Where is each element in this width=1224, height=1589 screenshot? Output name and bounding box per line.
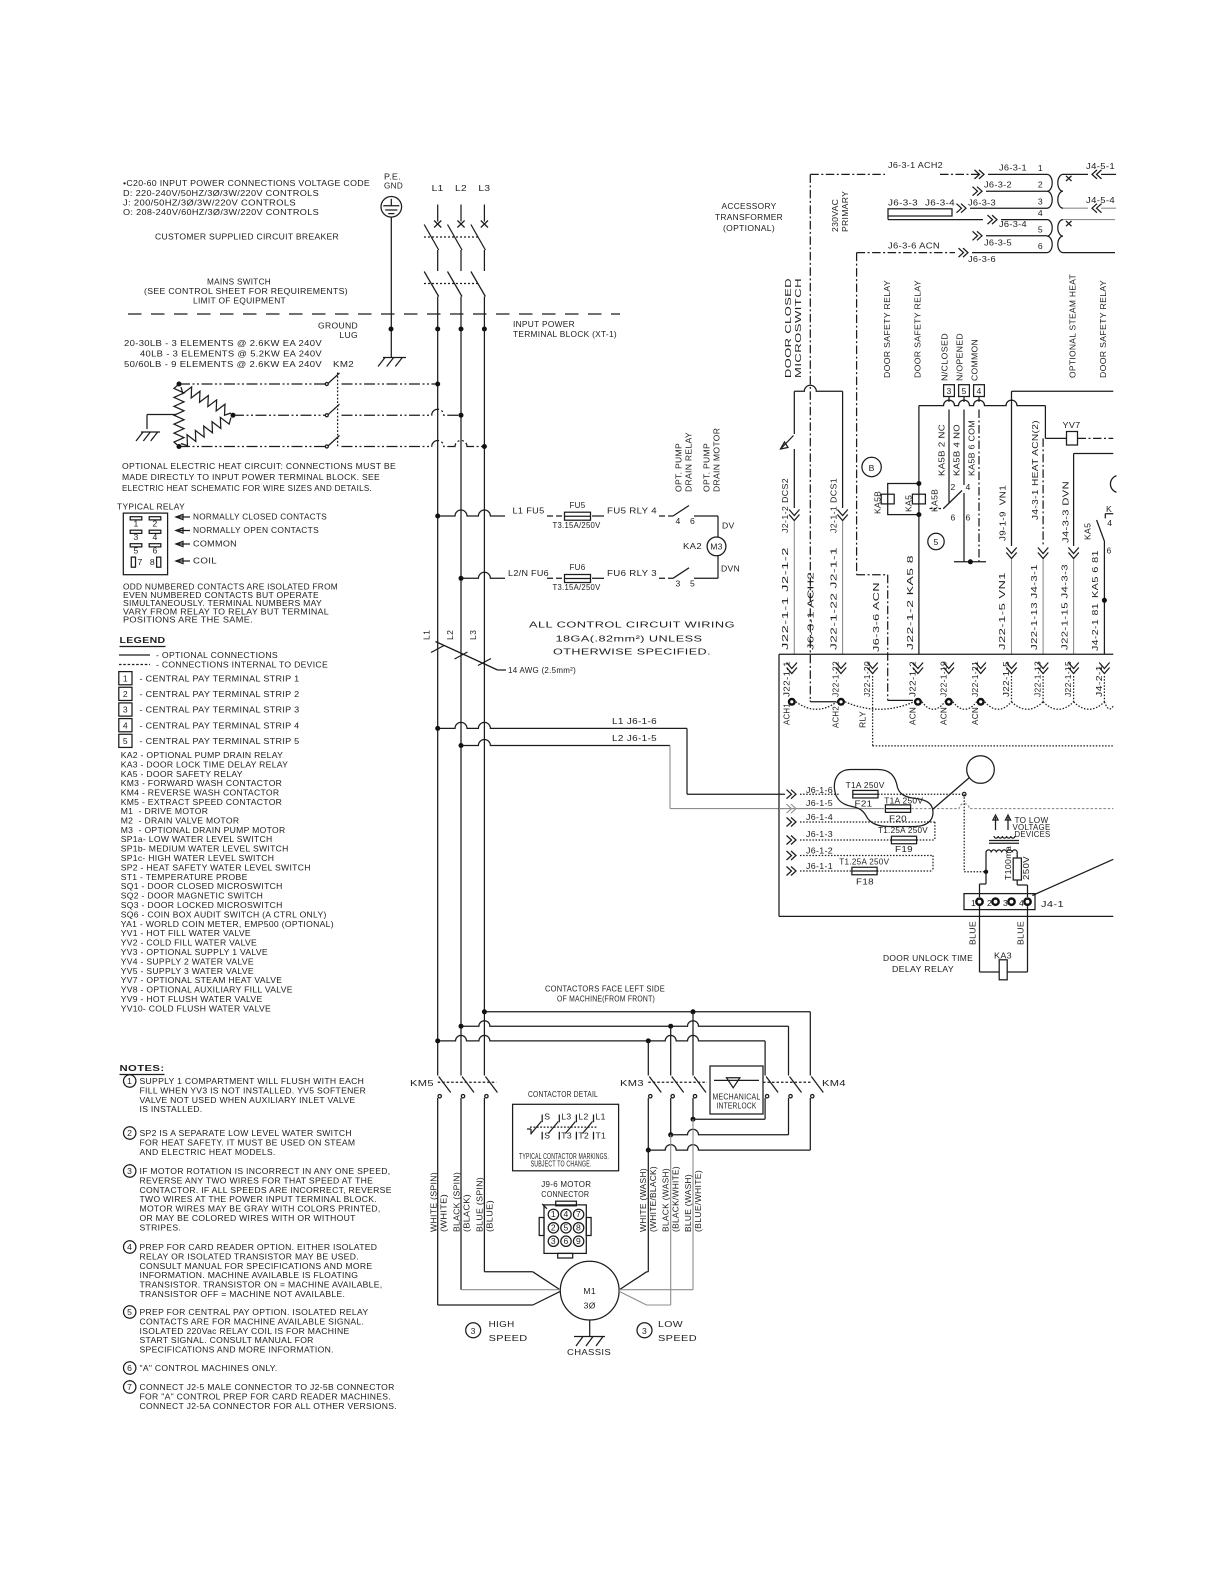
svg-text:J22-1-22 J2-1-1: J22-1-22 J2-1-1: [828, 547, 838, 650]
svg-text:J6-1-2: J6-1-2: [806, 846, 833, 856]
svg-text:3: 3: [946, 386, 951, 396]
svg-text:FU6 RLY 3: FU6 RLY 3: [607, 568, 657, 578]
wire L3 vertical: [483, 329, 485, 1076]
svg-text:BLACK (SPIN): BLACK (SPIN): [452, 1172, 462, 1232]
svg-text:ACH1: ACH1: [781, 703, 791, 725]
svg-text:L3: L3: [468, 630, 478, 640]
svg-text:S: S: [544, 1112, 550, 1122]
svg-text:INPUT POWER: INPUT POWER: [513, 319, 575, 329]
svg-text:J6-3-4: J6-3-4: [925, 198, 955, 208]
svg-text:YV10- COLD FLUSH WATER VALVE: YV10- COLD FLUSH WATER VALVE: [121, 1003, 271, 1013]
svg-text:4: 4: [1107, 518, 1112, 528]
mains switch linkage (dotted): [424, 283, 478, 285]
svg-text:- CENTRAL PAY TERMINAL STRIP 4: - CENTRAL PAY TERMINAL STRIP 4: [140, 720, 300, 730]
svg-text:L2: L2: [578, 1112, 588, 1122]
ground: chassis: [589, 1320, 591, 1337]
relay coil KA5: [912, 494, 925, 504]
svg-text:CONNECT J2-5A CONNECTOR FOR AL: CONNECT J2-5A CONNECTOR FOR ALL OTHER VE…: [140, 1401, 397, 1411]
svg-text:J6-3-1 ACH2: J6-3-1 ACH2: [806, 572, 816, 650]
connector J6-1-2 row: [791, 851, 796, 860]
svg-text:OPT. PUMP: OPT. PUMP: [702, 443, 712, 492]
svg-text:BLUE (WASH): BLUE (WASH): [683, 1174, 693, 1232]
svg-text:BLUE (SPIN): BLUE (SPIN): [475, 1177, 485, 1232]
svg-text:1: 1: [123, 673, 128, 683]
legend: line samples: [119, 654, 150, 656]
wire: heater phase leads (phantom): [179, 383, 326, 385]
svg-text:F18: F18: [856, 877, 874, 887]
svg-text:J6-3-4: J6-3-4: [999, 219, 1027, 229]
connector pin J6-3-5: [977, 231, 982, 240]
wire: secondary outputs: [1063, 219, 1115, 221]
svg-text:J22-1-2: J22-1-2: [907, 661, 917, 697]
svg-text:J22-1-1: J22-1-1: [781, 661, 791, 697]
connector J9-1-9 VN1: [1006, 548, 1016, 554]
svg-text:DOOR SAFETY RELAY: DOOR SAFETY RELAY: [913, 280, 923, 378]
svg-text:J6-1-6: J6-1-6: [806, 785, 833, 795]
svg-text:L2 J6-1-5: L2 J6-1-5: [612, 733, 657, 743]
svg-text:18GA(.82mm²) UNLESS: 18GA(.82mm²) UNLESS: [556, 633, 703, 643]
svg-text:- CENTRAL PAY TERMINAL STRIP 1: - CENTRAL PAY TERMINAL STRIP 1: [140, 673, 300, 683]
svg-text:J4-3-1 HEAT ACN(2): J4-3-1 HEAT ACN(2): [1030, 420, 1040, 520]
svg-text:3: 3: [123, 705, 128, 715]
wire: ACH2 column (dash-dot): [809, 174, 811, 700]
svg-text:POSITIONS ARE THE SAME.: POSITIONS ARE THE SAME.: [123, 615, 253, 625]
svg-text:J22-1-15 J4-3-3: J22-1-15 J4-3-3: [1059, 564, 1069, 650]
svg-text:J4-1: J4-1: [1041, 899, 1064, 909]
svg-text:SUBJECT TO CHANGE.: SUBJECT TO CHANGE.: [531, 1159, 592, 1169]
wire: ACN column (dash-dot): [856, 253, 858, 575]
svg-text:LOW: LOW: [658, 1319, 684, 1329]
svg-text:NORMALLY OPEN CONTACTS: NORMALLY OPEN CONTACTS: [193, 525, 319, 535]
svg-text:ACN: ACN: [970, 707, 980, 725]
label: low speed (note 3): [637, 1323, 652, 1338]
svg-text:- CENTRAL PAY TERMINAL STRIP 5: - CENTRAL PAY TERMINAL STRIP 5: [140, 736, 300, 746]
svg-text:PRIMARY: PRIMARY: [840, 191, 850, 232]
KM3 linkage: [648, 1081, 707, 1083]
svg-text:T1A 250V: T1A 250V: [846, 780, 885, 790]
connector pin J6-3-4: [992, 215, 997, 224]
svg-text:ACN: ACN: [938, 707, 948, 725]
svg-text:J22-1-15: J22-1-15: [1063, 661, 1073, 697]
svg-text:DOOR CLOSED: DOOR CLOSED: [783, 278, 793, 378]
contactor KM4: [766, 1077, 778, 1093]
svg-text:J6-3-1: J6-3-1: [999, 163, 1027, 173]
svg-text:MADE DIRECTLY TO INPUT POWER T: MADE DIRECTLY TO INPUT POWER TERMINAL BL…: [122, 472, 380, 482]
svg-text:OPT. PUMP: OPT. PUMP: [674, 443, 684, 492]
connector J4-1: [964, 894, 1035, 910]
arc: clipped reference circle: [1110, 476, 1116, 493]
svg-text:2: 2: [123, 689, 128, 699]
svg-text:J22-1-5 VN1: J22-1-5 VN1: [997, 572, 1007, 650]
svg-text:2: 2: [152, 519, 157, 529]
svg-text:6: 6: [563, 1236, 568, 1246]
reference B: [862, 457, 881, 476]
wire: reversing crossovers: [692, 1098, 694, 1119]
svg-text:J4-5-1: J4-5-1: [1086, 161, 1115, 171]
wire: wash motor leads: [647, 1150, 649, 1272]
svg-text:6: 6: [152, 546, 157, 556]
svg-text:J6-1-4: J6-1-4: [806, 812, 833, 822]
svg-text:4: 4: [676, 516, 681, 526]
connector J6-1-1 row: [791, 867, 796, 876]
connector pin J6-3-3: [961, 204, 966, 213]
svg-text:J22-1-21: J22-1-21: [970, 661, 980, 697]
wire: L1 J6-1-6 feed: [438, 722, 687, 728]
svg-text:J4-2-1: J4-2-1: [1094, 665, 1104, 697]
svg-text:KA5: KA5: [1083, 523, 1093, 540]
mechanical interlock: [710, 1066, 763, 1114]
svg-text:1: 1: [1038, 163, 1043, 173]
svg-text:J6-3-6: J6-3-6: [968, 254, 996, 264]
svg-text:6: 6: [1038, 241, 1043, 251]
svg-text:NOTES:: NOTES:: [120, 1063, 165, 1073]
svg-text:T1.25A 250V: T1.25A 250V: [839, 857, 889, 867]
transformer secondary winding: [1058, 174, 1063, 208]
svg-text:DRAIN MOTOR: DRAIN MOTOR: [712, 428, 722, 492]
svg-text:F21: F21: [855, 799, 873, 809]
wire: KM3 pole feeds: [692, 1012, 694, 1076]
svg-text:5: 5: [1038, 224, 1043, 234]
svg-text:4: 4: [966, 482, 971, 492]
svg-text:F19: F19: [895, 844, 913, 854]
svg-text:N/OPENED: N/OPENED: [955, 333, 965, 381]
svg-text:(OPTIONAL): (OPTIONAL): [723, 223, 775, 233]
svg-text:(BLUE/WHITE): (BLUE/WHITE): [693, 1170, 703, 1232]
svg-text:50/60LB - 9 ELEMENTS @ 2.6KW E: 50/60LB - 9 ELEMENTS @ 2.6KW EA 240V: [124, 359, 322, 369]
svg-text:3: 3: [133, 532, 138, 542]
relay contact KA2 4-6: [673, 506, 689, 517]
svg-text:RLY: RLY: [858, 711, 868, 728]
svg-text:J22-1-13 J4-3-1: J22-1-13 J4-3-1: [1029, 564, 1039, 650]
fuse FU5: [565, 512, 591, 520]
svg-text:- OPTIONAL CONNECTIONS: - OPTIONAL CONNECTIONS: [156, 650, 278, 660]
svg-text:(BLUE): (BLUE): [485, 1200, 495, 1232]
svg-text:BLUE: BLUE: [968, 921, 978, 945]
svg-text:KA5 6 81: KA5 6 81: [1090, 550, 1100, 598]
svg-text:J6-1-3: J6-1-3: [806, 829, 833, 839]
svg-text:KM5: KM5: [410, 1078, 434, 1088]
svg-text:J6-3-6 ACN: J6-3-6 ACN: [871, 582, 881, 652]
wire: PE conductor: [390, 217, 392, 357]
svg-text:L2/N FU6: L2/N FU6: [508, 568, 549, 578]
magnifier symbol: [967, 756, 995, 784]
valve coil YV7 (steam heat): [1067, 432, 1078, 446]
svg-text:40LB - 3 ELEMENTS @ 5.2KW EA 2: 40LB - 3 ELEMENTS @ 5.2KW EA 240V: [140, 349, 322, 359]
motor M3 (drain pump): [707, 537, 726, 556]
svg-text:1: 1: [127, 1076, 132, 1086]
svg-text:3: 3: [471, 1326, 476, 1336]
circuit breaker linkage (dotted): [424, 236, 478, 238]
svg-text:J: 200/50HZ/3Ø/3W/220V CONTROL: J: 200/50HZ/3Ø/3W/220V CONTROLS: [123, 198, 296, 208]
svg-text:J9-6 MOTOR: J9-6 MOTOR: [541, 1179, 591, 1189]
connector J4-3-3: [1068, 548, 1078, 554]
svg-text:14 AWG (2.5mm²): 14 AWG (2.5mm²): [508, 665, 576, 675]
svg-text:2: 2: [951, 482, 956, 492]
wire: VN1 column: [1012, 390, 1114, 392]
svg-text:FU6: FU6: [570, 562, 586, 572]
svg-text:DOOR SAFETY RELAY: DOOR SAFETY RELAY: [882, 280, 892, 378]
wire: motor connections left: [484, 1271, 532, 1273]
svg-text:M3: M3: [710, 542, 723, 552]
svg-text:M1: M1: [583, 1286, 596, 1296]
svg-text:DRAIN RELAY: DRAIN RELAY: [684, 432, 694, 492]
svg-text:3: 3: [127, 1166, 132, 1176]
heater junction nodes: [177, 382, 182, 387]
svg-text:4: 4: [123, 720, 128, 730]
connector J6-1-3 row: [791, 836, 796, 845]
svg-text:3: 3: [676, 579, 681, 589]
svg-text:(WHITE/BLACK): (WHITE/BLACK): [648, 1166, 658, 1232]
wire: RLY internal route (dotted): [872, 676, 874, 746]
svg-text:(BLACK/WHITE): (BLACK/WHITE): [671, 1166, 681, 1232]
svg-text:ACN: ACN: [907, 707, 917, 725]
svg-text:(WHITE): (WHITE): [439, 1194, 449, 1232]
svg-text:J6-1-5: J6-1-5: [806, 798, 833, 808]
svg-text:J4-5-4: J4-5-4: [1086, 195, 1115, 205]
KM4 linkage: [763, 1081, 811, 1083]
svg-text:(BLACK): (BLACK): [462, 1194, 472, 1232]
svg-text:L1 J6-1-6: L1 J6-1-6: [612, 716, 657, 726]
svg-text:STRIPES.: STRIPES.: [140, 1222, 182, 1232]
svg-text:K: K: [1106, 504, 1112, 514]
svg-text:J6-3-1 ACH2: J6-3-1 ACH2: [888, 160, 943, 170]
pin sockets ACH1/ACH2/ACN: [788, 698, 796, 706]
svg-text:5: 5: [127, 1307, 132, 1317]
svg-text:250V: 250V: [1021, 856, 1031, 880]
reference note 5: [928, 533, 944, 549]
svg-text:L1: L1: [422, 630, 432, 640]
svg-text:L3: L3: [478, 183, 490, 193]
svg-text:J22-1-22: J22-1-22: [831, 661, 841, 697]
connector J4-5-1: [1063, 173, 1088, 175]
svg-text:6: 6: [951, 513, 956, 523]
svg-text:J6-3-3: J6-3-3: [968, 198, 996, 208]
wire: BLUE leads: [979, 906, 981, 972]
connector J2-1-1 DCS1: [837, 510, 847, 516]
svg-text:CONNECTOR: CONNECTOR: [541, 1189, 589, 1199]
svg-text:J4-3-3 DVN: J4-3-3 DVN: [1060, 481, 1070, 543]
svg-text:(SEE CONTROL SHEET FOR REQUIRE: (SEE CONTROL SHEET FOR REQUIREMENTS): [144, 286, 348, 296]
svg-text:J22-1-19: J22-1-19: [938, 661, 948, 697]
svg-text:DV: DV: [722, 521, 735, 531]
svg-text:8: 8: [150, 557, 155, 567]
svg-text:SPEED: SPEED: [658, 1333, 697, 1343]
P.E. protective earth symbol: [381, 197, 402, 218]
svg-text:KM4: KM4: [822, 1078, 846, 1088]
svg-text:COMMON: COMMON: [970, 339, 980, 381]
svg-text:L2: L2: [455, 183, 467, 193]
svg-text:AND ELECTRIC HEAT MODELS.: AND ELECTRIC HEAT MODELS.: [140, 1147, 276, 1157]
svg-text:OPTIONAL ELECTRIC HEAT CIRCUIT: OPTIONAL ELECTRIC HEAT CIRCUIT: CONNECTI…: [122, 461, 396, 471]
svg-text:CONTACTOR DETAIL: CONTACTOR DETAIL: [528, 1089, 598, 1099]
svg-text:4: 4: [1038, 208, 1043, 218]
svg-text:TERMINAL BLOCK (XT-1): TERMINAL BLOCK (XT-1): [513, 329, 617, 339]
wire: motor connections right: [647, 1271, 649, 1273]
svg-text:F20: F20: [889, 814, 907, 824]
svg-text:DELAY RELAY: DELAY RELAY: [892, 964, 954, 974]
svg-text:20-30LB - 3 ELEMENTS @ 2.6KW E: 20-30LB - 3 ELEMENTS @ 2.6KW EA 240V: [124, 338, 322, 348]
svg-text:WHITE (WASH): WHITE (WASH): [638, 1168, 648, 1232]
wire L1 vertical: [437, 329, 439, 1076]
control board outline: [779, 653, 1113, 655]
svg-text:SPECIFICATIONS AND MORE INFORM: SPECIFICATIONS AND MORE INFORMATION.: [140, 1345, 334, 1355]
door closed microswitch SQ1: [794, 385, 842, 391]
fuse F20: [885, 805, 910, 813]
svg-text:MICROSWITCH: MICROSWITCH: [793, 278, 803, 378]
svg-text:L1: L1: [432, 183, 444, 193]
relay coil KA5B: [881, 494, 894, 504]
svg-text:OTHERWISE SPECIFIED.: OTHERWISE SPECIFIED.: [553, 647, 711, 657]
limit of equipment boundary (dashed): [128, 313, 620, 315]
svg-text:J2-1-2 DCS2: J2-1-2 DCS2: [780, 478, 790, 533]
connector J6-1-4 row: [791, 818, 796, 827]
internal bus garland: [796, 702, 837, 710]
svg-text:- CENTRAL PAY TERMINAL STRIP 3: - CENTRAL PAY TERMINAL STRIP 3: [140, 705, 300, 715]
svg-text:T3.15A/250V: T3.15A/250V: [553, 582, 601, 592]
svg-text:D: 220-240V/50HZ/3Ø/3W/220V CO: D: 220-240V/50HZ/3Ø/3W/220V CONTROLS: [123, 188, 319, 198]
svg-text:9: 9: [576, 1236, 581, 1246]
svg-text:J22-1-1 J2-1-2: J22-1-1 J2-1-2: [780, 547, 790, 650]
svg-text:DOOR UNLOCK TIME: DOOR UNLOCK TIME: [883, 953, 973, 963]
wire: DCS1 to board: [842, 521, 844, 654]
svg-text:IS INSTALLED.: IS INSTALLED.: [140, 1104, 203, 1114]
connector J2-1-2 DCS2: [789, 510, 799, 516]
svg-text:TYPICAL RELAY: TYPICAL RELAY: [117, 502, 185, 512]
connector J4-5-4: [1063, 207, 1088, 209]
svg-text:5: 5: [133, 546, 138, 556]
svg-text:YV7: YV7: [1063, 420, 1081, 430]
svg-text:INTERLOCK: INTERLOCK: [717, 1101, 757, 1111]
wire L2 vertical: [460, 329, 462, 1076]
wire: L1 FU5 feed: [438, 510, 505, 516]
svg-text:KA2: KA2: [683, 541, 702, 551]
fuse T100ma 250V: [1013, 858, 1021, 880]
svg-text:J6-3-2: J6-3-2: [984, 179, 1012, 189]
connector pin J6-3-2: [977, 187, 982, 196]
svg-text:J22-1-20: J22-1-20: [862, 661, 872, 697]
svg-text:OPTIONAL STEAM HEAT: OPTIONAL STEAM HEAT: [1068, 274, 1078, 378]
svg-text:3: 3: [551, 1236, 556, 1246]
svg-text:COMMON: COMMON: [193, 539, 237, 549]
svg-text:- CENTRAL PAY TERMINAL STRIP 2: - CENTRAL PAY TERMINAL STRIP 2: [140, 689, 300, 699]
motor M1 3-phase: [560, 1261, 619, 1320]
svg-text:T100ma: T100ma: [1003, 846, 1013, 880]
svg-text:TRANSFORMER: TRANSFORMER: [715, 212, 783, 222]
svg-text:T1: T1: [596, 1131, 607, 1141]
svg-text:ELECTRIC HEAT SCHEMATIC FOR WI: ELECTRIC HEAT SCHEMATIC FOR WIRE SIZES A…: [122, 483, 372, 493]
svg-text:4: 4: [563, 1209, 568, 1219]
highlight blob outline: [834, 770, 933, 827]
svg-text:DEVICES: DEVICES: [1015, 829, 1051, 839]
circuit breaker + mains switch poles: [437, 205, 439, 222]
svg-text:HIGH: HIGH: [489, 1319, 515, 1329]
svg-text:230VAC: 230VAC: [830, 199, 840, 232]
terminals 3/5/4 door safety relay: [944, 385, 955, 397]
label: high speed (note 3): [466, 1323, 481, 1338]
svg-text:MAINS SWITCH: MAINS SWITCH: [207, 277, 271, 287]
contactor detail legend: [513, 1104, 619, 1171]
connector J6-1-6 row: [791, 790, 796, 799]
ground lug: [378, 358, 385, 367]
svg-text:KA5B: KA5B: [873, 491, 883, 514]
connector J4-3-1: [1038, 548, 1048, 554]
svg-text:J22-1-2 KA5 8: J22-1-2 KA5 8: [905, 555, 915, 650]
wire gauge marker 14 AWG: [436, 642, 498, 671]
wire: KM4 pole feeds: [809, 1012, 811, 1076]
wire: contact common bus: [954, 561, 986, 563]
svg-text:LUG: LUG: [339, 330, 358, 340]
relay contact KA2 3-5: [673, 568, 689, 579]
svg-text:1: 1: [133, 519, 138, 529]
svg-text:BLUE: BLUE: [1016, 921, 1026, 945]
leader line: [1032, 859, 1113, 895]
fuse F18: [852, 867, 877, 875]
svg-text:4: 4: [976, 386, 981, 396]
wire: J6-3-1 ACH2 feed: [810, 173, 885, 175]
svg-text:KA5: KA5: [904, 495, 914, 512]
svg-text:"A" CONTROL MACHINES ONLY.: "A" CONTROL MACHINES ONLY.: [140, 1363, 278, 1373]
wire: KA5 feed J22-1-2 KA5 8: [918, 406, 920, 484]
wire: wash feed L2: [461, 1021, 789, 1026]
svg-text:1: 1: [551, 1209, 556, 1219]
wire: wash feed L1: [438, 1035, 765, 1040]
svg-text:ACCESSORY: ACCESSORY: [722, 201, 777, 211]
fuse F21: [853, 790, 878, 798]
svg-text:4: 4: [152, 532, 157, 542]
svg-text:KA3: KA3: [994, 951, 1012, 961]
svg-text:LIMIT OF EQUIPMENT: LIMIT OF EQUIPMENT: [193, 296, 286, 306]
svg-text:6: 6: [690, 516, 695, 526]
wire: heater ground tap: [147, 414, 176, 416]
svg-text:3: 3: [1038, 197, 1043, 207]
fuse FU6: [565, 575, 591, 583]
svg-text:5: 5: [123, 736, 128, 746]
wire: wash feed L3: [484, 1011, 810, 1013]
svg-text:NORMALLY CLOSED CONTACTS: NORMALLY CLOSED CONTACTS: [193, 512, 327, 522]
svg-text:BLACK (WASH): BLACK (WASH): [661, 1168, 671, 1232]
svg-text:COIL: COIL: [193, 556, 217, 566]
svg-text:5: 5: [563, 1222, 568, 1232]
svg-text:7: 7: [576, 1209, 581, 1219]
legend: central pay terminal strips 1-5: [119, 672, 132, 685]
svg-text:T1A 250V: T1A 250V: [884, 796, 923, 806]
svg-text:CHASSIS: CHASSIS: [567, 1347, 611, 1357]
KM5 linkage: [438, 1081, 497, 1083]
svg-text:J6-3-3: J6-3-3: [888, 198, 918, 208]
svg-text:J6-1-1: J6-1-1: [806, 861, 833, 871]
svg-text:6: 6: [1107, 546, 1112, 556]
wire: YV7 feed: [1044, 406, 1046, 439]
svg-text:J2-1-1 DCS1: J2-1-1 DCS1: [828, 478, 838, 533]
wire: relay bus with jumps: [919, 400, 1046, 405]
wire: KM2 to L1/L2/L3 with junctions: [342, 383, 438, 385]
svg-text:TRANSISTOR OFF = MACHINE NOT A: TRANSISTOR OFF = MACHINE NOT AVAILABLE.: [140, 1289, 346, 1299]
svg-text:2: 2: [551, 1222, 556, 1232]
svg-text:4: 4: [127, 1242, 132, 1252]
svg-text:L3: L3: [561, 1112, 571, 1122]
transformer polarity marks: [1066, 176, 1072, 181]
svg-text:T3.15A/250V: T3.15A/250V: [553, 520, 601, 530]
contactor KM2 poles: [325, 383, 328, 386]
svg-text:FU5: FU5: [570, 500, 586, 510]
svg-text:•C20-60 INPUT POWER CONNECTION: •C20-60 INPUT POWER CONNECTIONS VOLTAGE …: [123, 178, 370, 188]
svg-text:6: 6: [127, 1363, 132, 1373]
wire: spin motor leads: [437, 1098, 439, 1305]
svg-text:OF MACHINE(FROM FRONT): OF MACHINE(FROM FRONT): [557, 994, 655, 1004]
svg-text:GROUND: GROUND: [318, 321, 358, 331]
svg-text:2: 2: [127, 1128, 132, 1138]
svg-text:DVN: DVN: [721, 564, 740, 574]
